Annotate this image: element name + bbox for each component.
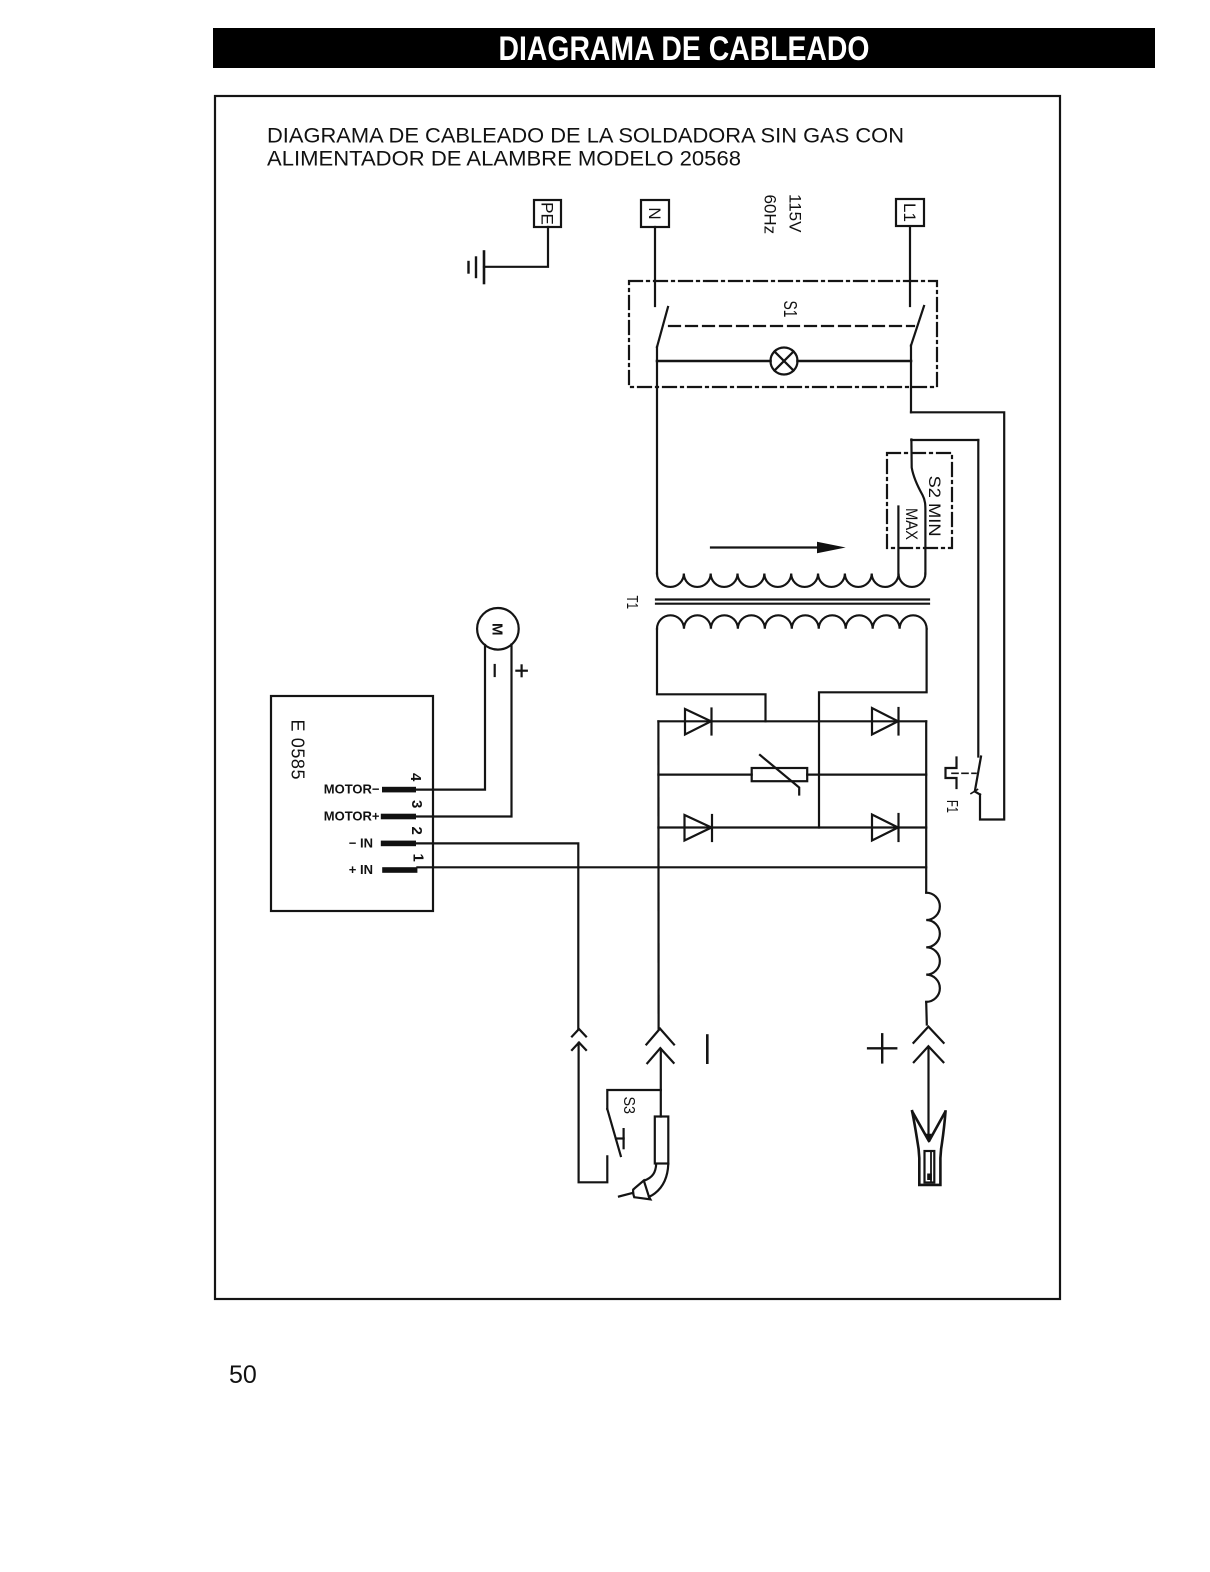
svg-text:DIAGRAMA DE CABLEADO DE LA SOL: DIAGRAMA DE CABLEADO DE LA SOLDADORA SIN…: [267, 125, 904, 148]
wire L1 to S1: [909, 227, 911, 307]
wire N to S1: [654, 227, 656, 306]
work clamp: [912, 1111, 945, 1185]
diode D4: [872, 815, 898, 841]
svg-text:L1: L1: [900, 203, 919, 222]
wire +IN to bridge bottom rail: [417, 866, 926, 868]
svg-text:MOTOR+: MOTOR+: [324, 808, 380, 823]
switch S3 trigger: [607, 1090, 661, 1109]
wire MOTOR+ to motor: [416, 645, 512, 817]
svg-text:4: 4: [407, 773, 424, 782]
title bar: [213, 28, 1155, 68]
svg-text:MAX: MAX: [902, 508, 921, 540]
bridge lower diode rail: [658, 826, 926, 828]
plus output arrow: [927, 1048, 929, 1137]
svg-text:3: 3: [408, 800, 425, 808]
svg-text:50: 50: [229, 1361, 257, 1389]
transformer T1 secondary winding: [657, 615, 927, 628]
bridge right rail: [925, 721, 927, 892]
board terminal 1 +IN: [382, 867, 417, 873]
switch S2 blade: [911, 440, 925, 574]
diode D1: [685, 709, 711, 735]
switch S1 pole A blade: [657, 307, 668, 347]
wire -IN to S3: [416, 843, 578, 1028]
motor M: [477, 608, 519, 650]
T1 core: [656, 598, 929, 600]
label minus: [706, 1036, 709, 1063]
plus output connector chevrons: [914, 1027, 944, 1043]
svg-text:F1: F1: [943, 800, 960, 813]
svg-text:DIAGRAMA DE CABLEADO: DIAGRAMA DE CABLEADO: [499, 30, 870, 68]
arrow wire feed: [711, 546, 819, 548]
terminal PE: [534, 200, 561, 227]
svg-text:T1: T1: [623, 596, 640, 610]
terminal L1: [896, 199, 924, 226]
wire secondary left to bridge: [657, 629, 766, 722]
transformer T1 primary winding: [657, 574, 925, 587]
board terminal 3 MOTOR+: [381, 814, 416, 820]
diode D2: [872, 708, 898, 735]
torch: [655, 1117, 669, 1164]
switch S1 pole B blade: [911, 306, 924, 346]
label motor minus: [494, 665, 496, 676]
svg-text:2: 2: [408, 827, 425, 835]
breaker F1: [946, 758, 957, 789]
label motor plus: [516, 670, 526, 672]
label plus: [868, 1047, 896, 1049]
switch S1 enclosure: [629, 281, 937, 387]
minus lead connector chevrons (control): [572, 1029, 586, 1037]
svg-text:115V: 115V: [786, 194, 805, 233]
bridge left rail / wire to minus output: [657, 721, 659, 1028]
svg-text:1: 1: [410, 854, 427, 862]
svg-text:M: M: [489, 623, 506, 636]
svg-text:S1: S1: [780, 301, 800, 318]
svg-text:− IN: − IN: [349, 835, 373, 850]
svg-text:S3: S3: [620, 1097, 637, 1115]
lamp: [771, 348, 798, 375]
wire S1 pole B to F1: [911, 412, 1004, 819]
svg-text:ALIMENTADOR DE ALAMBRE MODELO: ALIMENTADOR DE ALAMBRE MODELO 20568: [267, 148, 741, 171]
wire MOTOR- to motor: [416, 645, 485, 790]
svg-text:E 0585: E 0585: [288, 720, 308, 781]
torch lead connector chevrons: [646, 1029, 674, 1045]
svg-text:PE: PE: [538, 202, 557, 225]
wire F1 to S2: [911, 439, 978, 441]
bridge top rail: [658, 720, 926, 722]
board terminal 4 MOTOR-: [382, 787, 416, 793]
svg-text:N: N: [645, 207, 664, 219]
wire PE to ground: [484, 227, 548, 267]
svg-text:S2 MIN: S2 MIN: [925, 476, 944, 537]
svg-text:60Hz: 60Hz: [761, 195, 780, 235]
wire S1 pole A down to T1: [656, 347, 658, 574]
wire S2 MAX tap: [897, 507, 899, 574]
ground: [483, 252, 486, 284]
varistor RV: [752, 768, 808, 781]
inductor L1 choke: [926, 893, 940, 1002]
lamp wire: [657, 360, 771, 363]
svg-text:+ IN: + IN: [349, 862, 373, 877]
board terminal 2 -IN: [381, 841, 416, 847]
svg-text:MOTOR−: MOTOR−: [324, 782, 380, 797]
switch S2 enclosure: [887, 453, 952, 548]
motor feed board E 0585: [271, 696, 433, 911]
terminal N: [641, 200, 669, 227]
outer frame: [215, 96, 1060, 1299]
wire secondary right to bridge: [819, 629, 927, 828]
bridge middle rail: [658, 773, 751, 775]
diagram title: [267, 125, 904, 171]
S1 coupling dashed line: [669, 325, 914, 327]
diode D3: [685, 815, 712, 841]
